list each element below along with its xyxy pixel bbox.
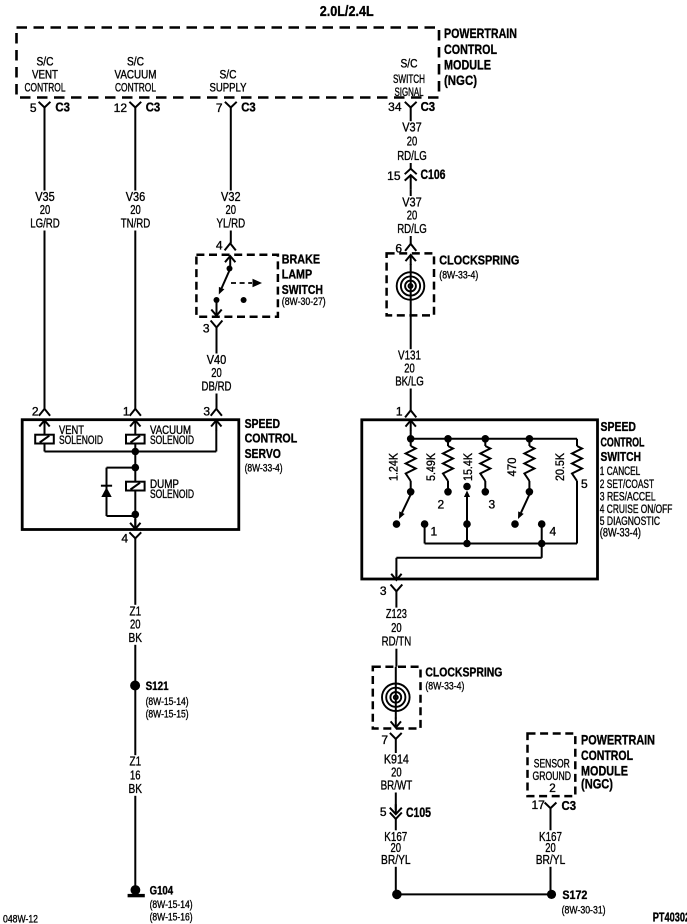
speed control servo box	[22, 420, 239, 530]
clockspring wire through	[410, 264, 412, 315]
stub below 15.4K	[484, 481, 486, 489]
speed control switch pin 3	[391, 585, 403, 592]
svg-text:12: 12	[114, 101, 128, 115]
svg-text:VENT: VENT	[32, 70, 58, 82]
svg-text:CLOCKSPRING: CLOCKSPRING	[439, 253, 519, 268]
wire K914 from clockspring to C105	[395, 739, 397, 810]
wire K167 from PCM pin 17 to S172	[550, 809, 552, 895]
svg-text:CLOCKSPRING: CLOCKSPRING	[425, 664, 502, 679]
svg-text:VACUUM: VACUUM	[115, 70, 157, 82]
svg-text:(NGC): (NGC)	[444, 72, 477, 88]
wire V131 from clockspring to speed control switch pin 1	[410, 315, 412, 410]
brake switch upper contact	[227, 266, 233, 272]
svg-text:BR/YL: BR/YL	[381, 852, 411, 867]
wire V37 from C106 to clockspring pin 6	[410, 189, 412, 244]
svg-text:(8W-15-14): (8W-15-14)	[150, 899, 193, 911]
svg-text:C3: C3	[146, 101, 161, 115]
svg-text:20.5K: 20.5K	[553, 453, 567, 481]
svg-text:17: 17	[531, 798, 545, 812]
svg-text:YL/RD: YL/RD	[217, 216, 246, 231]
wire Z1 from servo to splice S121	[134, 538, 136, 685]
svg-text:(8W-33-4): (8W-33-4)	[425, 680, 464, 692]
label Z1 20 BK	[126, 605, 145, 645]
servo bus junction	[132, 448, 140, 456]
contact node 2	[444, 488, 452, 496]
svg-text:(8W-15-16): (8W-15-16)	[150, 912, 193, 924]
svg-text:20: 20	[391, 620, 402, 635]
svg-text:CONTROL: CONTROL	[245, 431, 298, 446]
svg-text:2.0L/2.4L: 2.0L/2.4L	[320, 4, 374, 20]
svg-text:1: 1	[431, 525, 438, 539]
bus junction node R3	[482, 435, 490, 443]
svg-text:S/C: S/C	[127, 57, 144, 69]
wire junction to dump solenoid	[134, 468, 136, 482]
svg-text:BK: BK	[129, 630, 143, 645]
dump branch junction	[132, 464, 140, 472]
svg-text:(8W-15-14): (8W-15-14)	[146, 696, 189, 708]
label V131 20 BK/LG	[393, 349, 427, 388]
contact node 1	[421, 520, 429, 528]
resistor 470	[528, 439, 530, 446]
svg-text:SIGNAL: SIGNAL	[395, 87, 424, 99]
svg-text:5 DIAGNOSTIC: 5 DIAGNOSTIC	[600, 516, 660, 528]
stub below resistor 1.24K	[410, 481, 412, 489]
svg-text:1: 1	[123, 405, 130, 419]
svg-text:S172: S172	[562, 888, 587, 902]
svg-text:2: 2	[32, 405, 39, 419]
wire pin1 to vacuum solenoid	[134, 430, 136, 435]
svg-text:SUPPLY: SUPPLY	[210, 83, 247, 95]
label V35 20 LG/RD	[28, 191, 63, 231]
svg-text:1: 1	[396, 405, 403, 419]
brake switch lower contact	[214, 297, 220, 303]
svg-text:C3: C3	[55, 101, 70, 115]
svg-text:(8W-33-4): (8W-33-4)	[245, 463, 283, 475]
svg-text:BR/YL: BR/YL	[536, 852, 566, 867]
wire Z123 from switch pin 3 to clockspring	[395, 591, 397, 667]
svg-text:LAMP: LAMP	[282, 267, 313, 282]
brake switch actuator dashed arrow	[231, 282, 252, 284]
lower bus junction at node4	[538, 540, 546, 548]
res/accel switch blade	[466, 496, 468, 544]
clockspring 2 wire through	[395, 667, 397, 719]
svg-text:SENSOR: SENSOR	[534, 759, 570, 771]
svg-text:C3: C3	[562, 799, 577, 813]
svg-text:RD/LG: RD/LG	[397, 148, 427, 163]
brake lamp switch dashed box	[196, 255, 278, 317]
vacuum solenoid	[126, 435, 145, 444]
svg-text:SWITCH: SWITCH	[393, 74, 425, 86]
servo internal bus	[45, 451, 217, 453]
splice S121	[130, 681, 140, 691]
resistor 1.24K	[410, 439, 412, 446]
svg-text:BR/WT: BR/WT	[381, 778, 413, 793]
wire Z1 from S121 to ground G104	[134, 686, 136, 891]
clockspring dashed box	[387, 253, 434, 315]
svg-text:3: 3	[380, 584, 387, 598]
label V32 20 YL/RD	[214, 191, 248, 231]
wire vent solenoid to servo bus	[44, 444, 46, 452]
svg-text:7: 7	[216, 101, 223, 115]
svg-text:C3: C3	[421, 100, 436, 114]
svg-text:S/C: S/C	[401, 59, 418, 71]
arrow out of servo pin 4	[134, 519, 136, 529]
svg-text:15.4K: 15.4K	[461, 453, 475, 481]
label V40 20 DB/RD	[199, 354, 234, 394]
contact node of 470	[526, 488, 534, 496]
arrow out of clockspring 2	[395, 718, 397, 728]
resistor 15.4K	[484, 439, 486, 446]
svg-text:BRAKE: BRAKE	[282, 252, 320, 267]
diode D1	[101, 485, 112, 487]
svg-text:Z123: Z123	[386, 606, 407, 621]
servo pin 4	[129, 532, 141, 538]
svg-text:4: 4	[216, 239, 223, 253]
cruise on/off switch blade	[521, 495, 529, 513]
svg-text:SWITCH: SWITCH	[601, 449, 642, 464]
switch top bus	[411, 438, 577, 440]
brake switch floating contact	[241, 297, 247, 303]
svg-text:15: 15	[387, 169, 401, 183]
wire to servo pin 4	[134, 514, 136, 529]
stub below 470	[528, 481, 530, 489]
bus junction node R2	[444, 435, 452, 443]
svg-text:2: 2	[549, 783, 556, 795]
svg-text:(NGC): (NGC)	[581, 776, 613, 792]
label K167 20 BR/YL (left)	[379, 830, 414, 867]
svg-text:V37: V37	[402, 120, 422, 135]
svg-text:3 RES/ACCEL: 3 RES/ACCEL	[600, 491, 656, 503]
resistor 5.49K	[447, 439, 449, 446]
vent solenoid	[35, 435, 54, 444]
svg-text:34: 34	[388, 100, 402, 114]
switch output wire	[541, 544, 543, 558]
svg-text:4: 4	[550, 525, 557, 539]
svg-text:CONTROL: CONTROL	[581, 747, 633, 763]
wire K167 from C105 to splice S172	[395, 819, 397, 895]
cruise on/off contact	[511, 520, 519, 528]
svg-text:7: 7	[381, 733, 388, 747]
svg-text:RD/TN: RD/TN	[382, 634, 412, 649]
svg-text:POWERTRAIN: POWERTRAIN	[444, 25, 517, 41]
svg-text:SOLENOID: SOLENOID	[59, 435, 103, 447]
wire V37 from PCM pin 34 to C106	[410, 108, 412, 169]
clockspring 2 coil spiral	[382, 684, 410, 712]
wire dump solenoid to lower junction	[134, 491, 136, 515]
arrow into servo pin 2	[44, 420, 46, 430]
label V36 20 TN/RD	[118, 191, 153, 231]
servo lower junction	[132, 511, 140, 519]
svg-text:GROUND: GROUND	[533, 771, 572, 783]
svg-text:(8W-30-31): (8W-30-31)	[562, 905, 606, 917]
svg-text:TN/RD: TN/RD	[121, 216, 151, 231]
svg-text:LG/RD: LG/RD	[30, 216, 60, 231]
arrow into servo pin 1	[134, 420, 136, 430]
PCM sensor ground dashed box	[528, 734, 576, 797]
svg-text:(8W-15-15): (8W-15-15)	[146, 709, 189, 721]
wire vacuum solenoid to servo bus	[134, 444, 136, 452]
arrow into servo pin 3	[215, 420, 217, 430]
svg-text:S/C: S/C	[220, 70, 237, 82]
bus junction node R1	[407, 435, 415, 443]
contact node of 1.24K	[407, 488, 415, 496]
dump solenoid	[126, 482, 145, 491]
label K914 20 BR/WT	[378, 753, 415, 793]
arrow out of switch	[395, 570, 397, 580]
svg-text:SOLENOID: SOLENOID	[150, 489, 194, 501]
splice bus wire to S172	[397, 893, 551, 895]
svg-text:RD/LG: RD/LG	[397, 221, 427, 236]
res/accel contact node	[463, 520, 471, 528]
wire V40 from brake lamp switch to servo pin 3	[216, 328, 218, 409]
wire bus to dump branch	[134, 452, 136, 468]
wire V35 from PCM pin 5 to servo pin 2	[44, 108, 46, 409]
svg-text:3: 3	[203, 405, 210, 419]
svg-text:BK/LG: BK/LG	[395, 374, 424, 389]
svg-text:CONTROL: CONTROL	[601, 434, 645, 449]
svg-text:470: 470	[505, 457, 519, 476]
svg-text:20: 20	[407, 134, 418, 149]
svg-text:C105: C105	[406, 805, 431, 820]
clockspring coil spiral	[397, 272, 425, 300]
svg-text:5.49K: 5.49K	[424, 453, 438, 481]
junction node at S172 bus	[392, 890, 402, 900]
powertrain control module (NGC) dashed box	[17, 28, 440, 98]
svg-text:Z1: Z1	[130, 754, 142, 769]
svg-text:SERVO: SERVO	[245, 446, 281, 461]
wire pin2 to vent solenoid	[44, 430, 46, 435]
wire V32 from PCM pin 7 to brake lamp switch	[230, 108, 232, 244]
speed control switch box	[362, 420, 598, 579]
resistor 20.5K	[576, 439, 578, 446]
svg-text:048W-12: 048W-12	[3, 914, 38, 924]
lower bus junction at res/accel	[463, 540, 471, 548]
svg-text:4: 4	[121, 532, 128, 546]
brake lamp switch pin 3	[211, 321, 223, 328]
svg-text:1.24K: 1.24K	[387, 453, 401, 481]
svg-text:MODULE: MODULE	[444, 56, 491, 72]
label K167 20 BR/YL (right)	[533, 830, 568, 867]
svg-text:(8W-33-4): (8W-33-4)	[439, 270, 478, 282]
cancel switch contact	[393, 520, 401, 528]
svg-text:5: 5	[380, 805, 387, 819]
svg-text:(8W-30-27): (8W-30-27)	[282, 296, 326, 308]
svg-text:POWERTRAIN: POWERTRAIN	[581, 732, 655, 748]
stub node4 to lower bus	[541, 524, 543, 543]
svg-text:2: 2	[438, 498, 445, 512]
svg-text:S121: S121	[146, 679, 169, 693]
wire 20.5K to lower bus	[576, 481, 578, 544]
wire V36 from PCM pin 12 to servo pin 1	[134, 108, 136, 409]
svg-text:CONTROL: CONTROL	[115, 83, 156, 95]
brake switch blade	[222, 271, 230, 288]
contact node 4	[538, 520, 546, 528]
switch lower bus	[425, 543, 577, 545]
wire and arrow out of brake lamp switch	[216, 302, 218, 317]
bus junction node R4	[526, 435, 534, 443]
svg-text:1 CANCEL: 1 CANCEL	[600, 466, 641, 478]
label V37 20 RD/LG lower	[395, 196, 430, 236]
wire to resistor bus	[410, 430, 412, 439]
diode branch wire	[107, 467, 136, 469]
svg-text:CONTROL: CONTROL	[25, 83, 66, 95]
svg-text:SPEED: SPEED	[601, 419, 637, 434]
svg-text:C106: C106	[421, 167, 446, 182]
svg-text:SWITCH: SWITCH	[282, 282, 323, 297]
label V37 20 RD/LG	[395, 121, 430, 163]
svg-text:3: 3	[489, 498, 496, 512]
label Z123 20 RD/TN	[379, 608, 414, 649]
svg-text:DB/RD: DB/RD	[202, 379, 232, 394]
svg-text:S/C: S/C	[37, 57, 54, 69]
ground G104	[131, 885, 141, 895]
cancel switch blade	[402, 495, 411, 513]
wire pin3 down to servo bus	[215, 430, 217, 452]
contact node 3	[482, 488, 490, 496]
svg-text:SOLENOID: SOLENOID	[150, 435, 194, 447]
svg-text:SPEED: SPEED	[245, 416, 280, 431]
svg-text:3: 3	[203, 322, 210, 336]
svg-text:4 CRUISE ON/OFF: 4 CRUISE ON/OFF	[600, 504, 673, 516]
res/accel switch floating contact	[463, 483, 471, 491]
clockspring 2 pin 7	[390, 733, 402, 739]
arrow into clockspring	[410, 255, 412, 265]
stub below 5.49K	[447, 481, 449, 489]
svg-text:2 SET/COAST: 2 SET/COAST	[600, 479, 654, 491]
svg-text:(8W-33-4): (8W-33-4)	[600, 527, 641, 539]
stub node1 to lower bus	[424, 524, 426, 543]
arrow into switch from pin 1	[410, 420, 412, 430]
arrow into brake lamp switch	[229, 256, 231, 266]
svg-text:5: 5	[581, 477, 588, 491]
svg-text:PT40302I: PT40302I	[653, 911, 687, 924]
label Z1 16 BK	[126, 755, 145, 796]
svg-text:G104: G104	[150, 884, 174, 898]
clockspring 2 dashed box	[373, 667, 421, 729]
svg-text:C3: C3	[241, 101, 256, 115]
svg-text:CONTROL: CONTROL	[444, 41, 497, 57]
splice S172	[547, 890, 556, 899]
svg-text:5: 5	[30, 101, 37, 115]
svg-text:BK: BK	[129, 781, 143, 796]
